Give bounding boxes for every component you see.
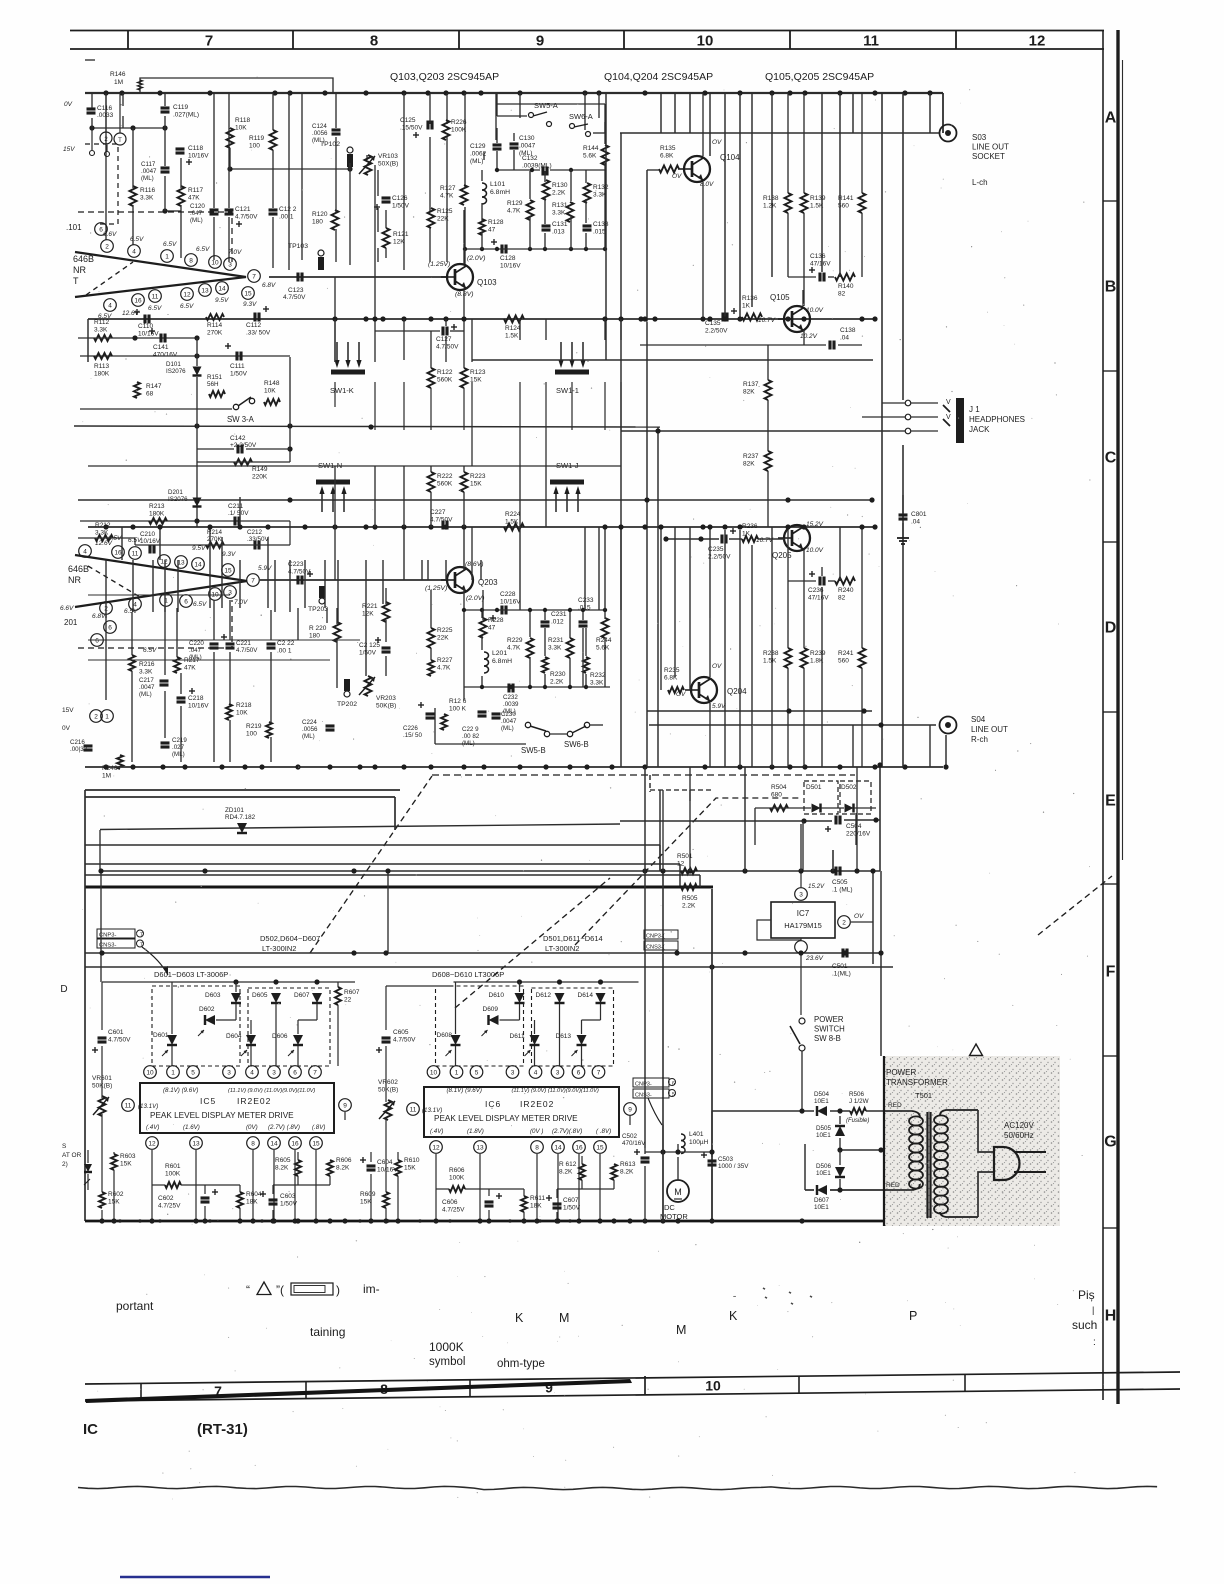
- wire row 687 ch2: [464, 686, 610, 688]
- svg-text:7: 7: [140, 932, 143, 938]
- svg-text:6: 6: [293, 1070, 297, 1077]
- svg-text:8: 8: [189, 258, 193, 265]
- capacitor C226: [426, 712, 435, 715]
- svg-text:IC6: IC6: [485, 1099, 501, 1109]
- svg-text:C118: C118: [188, 145, 203, 152]
- motor wires: [677, 1157, 679, 1180]
- transistor Q105: [784, 306, 810, 332]
- svg-text:50/60Hz: 50/60Hz: [1004, 1131, 1034, 1140]
- svg-text:D604: D604: [226, 1033, 242, 1040]
- IC6 pin 9: [624, 1103, 637, 1116]
- wire heavy 887 bus: [85, 886, 713, 889]
- capacitor C135: [721, 313, 724, 322]
- resistor R604: [237, 1192, 243, 1208]
- svg-text:C112: C112: [246, 322, 261, 329]
- resistor R223: [461, 472, 468, 492]
- svg-text:.101: .101: [66, 223, 82, 232]
- svg-text:C217: C217: [139, 677, 154, 684]
- capacitor C228: [500, 606, 503, 615]
- svg-text:C224: C224: [302, 719, 317, 726]
- IC pin row top l: [144, 1066, 157, 1079]
- svg-text:82K: 82K: [743, 389, 755, 396]
- diagonal pen stroke across bottom ruler: [85, 1379, 632, 1403]
- IC7 pin bottom: [795, 941, 808, 954]
- wire transformer left edge: [883, 1056, 885, 1226]
- svg-text:”(: ”(: [276, 1283, 284, 1297]
- left dashed region boundary ch1: [78, 212, 232, 262]
- svg-text:10/16V: 10/16V: [140, 538, 161, 545]
- svg-text:220K: 220K: [252, 474, 268, 481]
- resistor R218: [226, 704, 232, 720]
- wire row 521: [80, 520, 290, 522]
- wire channel2 verticals: [105, 614, 107, 700]
- svg-text:3: 3: [227, 1070, 231, 1077]
- dashed diode box B l: [248, 988, 330, 1066]
- svg-text:R213: R213: [149, 503, 165, 510]
- svg-text:C138: C138: [840, 327, 856, 334]
- capacitor C126: [382, 196, 391, 199]
- svg-text:4: 4: [108, 303, 112, 310]
- bottom border ruler lines: [85, 1372, 1180, 1384]
- svg-text:P: P: [909, 1309, 917, 1323]
- capacitor C221: [226, 642, 235, 645]
- wire 967 long bus: [85, 966, 893, 968]
- svg-text:C218: C218: [188, 695, 204, 702]
- svg-text:R124: R124: [505, 325, 521, 332]
- resistor R225: [428, 628, 435, 648]
- diode D606 low l: [293, 1035, 303, 1045]
- svg-text:1: 1: [105, 714, 109, 721]
- svg-text:50K(B): 50K(B): [378, 1087, 398, 1094]
- svg-text:6.8K: 6.8K: [664, 675, 678, 682]
- svg-text:D504: D504: [814, 1091, 830, 1098]
- svg-text:15.2V: 15.2V: [806, 521, 824, 528]
- resistor R605: [295, 1160, 301, 1176]
- capacitor C604: [367, 1164, 376, 1167]
- svg-text:SW1-K: SW1-K: [330, 386, 354, 395]
- resistor R228: [480, 618, 487, 638]
- svg-text:3: 3: [228, 262, 232, 269]
- svg-text:5.6K: 5.6K: [596, 645, 610, 652]
- svg-text:R144: R144: [583, 145, 599, 152]
- svg-text:6.5V: 6.5V: [148, 305, 162, 312]
- svg-text:7.0V: 7.0V: [234, 599, 248, 606]
- diode D607: [817, 1185, 827, 1195]
- svg-text:NR: NR: [73, 265, 86, 275]
- ac plug symbol: [994, 1147, 1020, 1180]
- svg-text:8.2K: 8.2K: [336, 1165, 350, 1172]
- wire row 356: [80, 355, 290, 357]
- svg-text:R606: R606: [449, 1167, 465, 1174]
- svg-text:100 K: 100 K: [449, 706, 467, 713]
- wire bottom bus: [85, 1220, 884, 1223]
- capacitor C138: [828, 341, 831, 350]
- svg-text:C502: C502: [622, 1133, 638, 1140]
- svg-text:9: 9: [628, 1107, 632, 1114]
- svg-text:(.8V): (.8V): [312, 1124, 325, 1131]
- resistor R119: [270, 130, 277, 150]
- wire row 462: [197, 461, 290, 463]
- resistor R149: [234, 459, 252, 465]
- svg-text:10.7V: 10.7V: [756, 537, 774, 544]
- svg-text:7: 7: [251, 578, 255, 585]
- capacitor C504: [834, 816, 837, 825]
- top ruler tick marks: [127, 31, 129, 50]
- resistor R601: [165, 1182, 181, 1188]
- ch2 row 500 long wire: [78, 499, 872, 501]
- svg-text:LINE OUT: LINE OUT: [972, 143, 1009, 152]
- svg-text:DC: DC: [664, 1203, 675, 1212]
- headphone jack J1: [956, 398, 964, 443]
- resistor R229: [527, 638, 534, 658]
- svg-text:100: 100: [246, 731, 257, 738]
- vertical 663 from S04 row: [662, 790, 664, 871]
- channel1 long verticals: [605, 93, 607, 360]
- svg-text:10/16V: 10/16V: [500, 599, 521, 606]
- svg-text:1M: 1M: [114, 79, 123, 86]
- vertical x880 E row: [879, 765, 881, 871]
- svg-text:R123: R123: [470, 369, 486, 376]
- capacitor C601: [98, 1036, 107, 1039]
- svg-text:50X(B): 50X(B): [378, 161, 398, 168]
- channel1 sw row verticals: [334, 382, 336, 407]
- svg-text:(11.1V) (9.0V) (11.0V)(9.0V)(1: (11.1V) (9.0V) (11.0V)(9.0V)(11.0V): [228, 1088, 315, 1094]
- socket S04: [940, 717, 957, 734]
- IC pin row top r: [427, 1066, 440, 1079]
- svg-text:10E1: 10E1: [816, 1132, 831, 1139]
- ac plug prongs: [1014, 1151, 1046, 1153]
- transformer primary coil: [912, 1111, 920, 1117]
- svg-text:22K: 22K: [437, 216, 449, 223]
- capacitor C606: [485, 1200, 494, 1203]
- svg-text:6: 6: [108, 625, 112, 632]
- svg-text:JACK: JACK: [969, 425, 990, 434]
- svg-text:3: 3: [799, 892, 803, 899]
- capacitor C607: [553, 1202, 562, 1205]
- svg-text:.0056: .0056: [302, 726, 318, 733]
- svg-text:R610: R610: [404, 1157, 420, 1164]
- svg-text:C606: C606: [442, 1199, 458, 1206]
- svg-text:D502: D502: [841, 784, 857, 791]
- svg-text:(0V): (0V): [246, 1124, 258, 1131]
- dots misc buses: [118, 1219, 122, 1223]
- svg-text:D602: D602: [199, 1006, 215, 1013]
- svg-text:LT-300IN2: LT-300IN2: [262, 944, 296, 953]
- svg-text:R151: R151: [207, 374, 223, 381]
- svg-text:C232: C232: [503, 694, 518, 701]
- svg-text:1/50V: 1/50V: [563, 1205, 581, 1212]
- wire row 538: [78, 537, 135, 539]
- svg-text:VR203: VR203: [376, 695, 396, 702]
- svg-text:16: 16: [291, 1141, 299, 1148]
- resistor R611: [521, 1196, 527, 1212]
- svg-text:3: 3: [556, 1070, 560, 1077]
- svg-text:C132: C132: [522, 155, 538, 162]
- svg-text:15: 15: [312, 1141, 320, 1148]
- svg-text:9: 9: [343, 1103, 347, 1110]
- svg-text:C2 22: C2 22: [277, 640, 295, 647]
- power transformer stipple background: [884, 1056, 1060, 1226]
- wire row 170 channel1: [230, 168, 350, 170]
- svg-text:CNS3-: CNS3-: [635, 1093, 652, 1099]
- resistor R139: [801, 193, 808, 213]
- diode D505: [835, 1126, 845, 1136]
- svg-text:13: 13: [476, 1145, 484, 1152]
- wire SW5B row: [435, 743, 526, 745]
- svg-text:15.2V: 15.2V: [808, 883, 825, 890]
- svg-text:R244: R244: [596, 637, 612, 644]
- diode D613 low r: [577, 1035, 587, 1045]
- svg-text:9.5V: 9.5V: [192, 545, 206, 552]
- svg-text:10/16V: 10/16V: [188, 703, 209, 710]
- channel2 mid verticals: [334, 527, 336, 580]
- svg-text:.0062: .0062: [470, 151, 487, 158]
- svg-text:(1.25V): (1.25V): [425, 585, 447, 592]
- svg-text:D606: D606: [272, 1033, 288, 1040]
- wire R146 lower loop: [92, 127, 165, 129]
- variable resistor VR203: [365, 676, 372, 696]
- connector CNP3 CNS3 right mid: [633, 1078, 669, 1087]
- svg-text:G: G: [1104, 1134, 1116, 1151]
- capacitor C505: [834, 867, 837, 876]
- svg-text:“: “: [246, 1283, 250, 1297]
- switch SW1-J: [550, 480, 584, 485]
- capacitor C216: [84, 744, 93, 747]
- capacitor C220: [210, 642, 219, 645]
- svg-text:.00 1: .00 1: [279, 214, 294, 221]
- wire S03 feed: [620, 132, 940, 134]
- svg-text:100K: 100K: [165, 1171, 181, 1178]
- resistor R135: [659, 166, 679, 173]
- svg-text:OV: OV: [854, 913, 864, 920]
- svg-text:10.7V: 10.7V: [758, 317, 776, 324]
- capacitor C501: [841, 949, 844, 958]
- capacitor C602: [201, 1196, 210, 1199]
- resistor R504: [770, 805, 788, 811]
- svg-text:C120: C120: [190, 203, 205, 210]
- svg-text:D: D: [60, 984, 67, 995]
- wire long 871 bus: [100, 870, 880, 872]
- svg-text:.00 82: .00 82: [462, 733, 480, 740]
- switch SW6-B: [567, 731, 572, 736]
- pin circles 2 T top left: [100, 132, 112, 144]
- resistor R136: [742, 314, 762, 321]
- ground symbol C801: [902, 523, 904, 538]
- svg-text:18K: 18K: [530, 1203, 542, 1210]
- pin circles bottom left: [90, 710, 103, 723]
- svg-text:R12 6: R12 6: [449, 698, 467, 705]
- svg-text:L201: L201: [492, 650, 507, 657]
- svg-text:R221: R221: [362, 603, 378, 610]
- resistor R240: [835, 578, 855, 585]
- svg-text:C126: C126: [392, 195, 408, 202]
- svg-text:IR2E02: IR2E02: [520, 1099, 554, 1109]
- svg-text:C230: C230: [501, 711, 516, 718]
- svg-text:.00|33: .00|33: [70, 746, 88, 753]
- svg-text:R225: R225: [437, 627, 453, 634]
- svg-text:portant: portant: [116, 1299, 154, 1313]
- capacitor C236: [818, 577, 821, 586]
- resistor R121: [383, 228, 390, 248]
- connector CNP3 CNS3 left: [97, 929, 135, 938]
- transformer secondary leads: [978, 1110, 994, 1152]
- svg-text:.15/ 50: .15/ 50: [403, 732, 422, 739]
- svg-text:180K: 180K: [149, 511, 165, 518]
- svg-text:10: 10: [146, 1070, 154, 1077]
- meter drive internal wires: [101, 1046, 103, 1098]
- svg-text:1M: 1M: [102, 773, 111, 780]
- svg-text:ˉ: ˉ: [733, 1295, 736, 1306]
- svg-text:5: 5: [191, 1070, 195, 1077]
- resistor R232: [583, 657, 589, 673]
- svg-text:6.5V: 6.5V: [193, 601, 207, 608]
- resistor R222: [428, 472, 435, 492]
- variable resistor VR103: [365, 155, 372, 175]
- capacitor C229: [478, 710, 487, 713]
- svg-text:taining: taining: [310, 1325, 345, 1339]
- svg-text:C226: C226: [403, 725, 418, 732]
- svg-text:AT OR: AT OR: [62, 1152, 82, 1159]
- diode D602 horizontal l: [205, 1015, 215, 1025]
- svg-text:9.5V: 9.5V: [215, 297, 229, 304]
- diode D611 low r: [530, 1035, 540, 1045]
- svg-text:10K: 10K: [264, 388, 276, 395]
- svg-text:AC120V: AC120V: [1004, 1121, 1034, 1130]
- svg-text:R603: R603: [120, 1153, 136, 1160]
- svg-text:R229: R229: [507, 637, 523, 644]
- svg-text:(ML): (ML): [141, 175, 154, 182]
- svg-text:CNP3-(: CNP3-(: [646, 934, 665, 940]
- svg-text:C123: C123: [288, 287, 304, 294]
- wire D50x row: [755, 807, 811, 809]
- svg-text:14: 14: [218, 286, 226, 293]
- capacitor C110: [143, 315, 146, 324]
- capacitor C225: [382, 646, 391, 649]
- svg-text:symbol: symbol: [429, 1356, 465, 1368]
- wire R146 loop: [140, 78, 333, 93]
- svg-text:R117: R117: [188, 187, 203, 194]
- left edge scan fragments: [85, 59, 95, 61]
- wire ch2 lower horizontals: [88, 639, 360, 641]
- capacitor C129: [493, 143, 502, 146]
- svg-text:C: C: [1105, 450, 1117, 467]
- svg-text:D605: D605: [252, 992, 268, 999]
- channel1 lower verticals: [334, 319, 336, 362]
- resistor R610: [395, 1160, 401, 1176]
- svg-text:.0047: .0047: [141, 168, 157, 175]
- svg-text:47K: 47K: [188, 195, 200, 202]
- svg-text:5.9V: 5.9V: [712, 703, 726, 710]
- svg-text:.047: .047: [190, 210, 203, 217]
- svg-text:R602: R602: [108, 1191, 124, 1198]
- svg-text:(Fusible): (Fusible): [846, 1118, 869, 1124]
- svg-text:9: 9: [545, 1379, 553, 1395]
- op-amp U101 triangle channel1: [75, 252, 246, 297]
- svg-text:R137: R137: [743, 381, 759, 388]
- svg-text:R236: R236: [742, 523, 758, 530]
- svg-text:3.3K: 3.3K: [95, 530, 109, 537]
- svg-text:Q105: Q105: [770, 293, 790, 302]
- svg-text:R139: R139: [810, 195, 826, 202]
- capacitor C116: [87, 107, 96, 110]
- svg-text:4.7/50V: 4.7/50V: [436, 344, 459, 351]
- svg-text:TP103: TP103: [288, 243, 308, 250]
- svg-text:14: 14: [554, 1145, 562, 1152]
- svg-text:D608: D608: [437, 1032, 453, 1039]
- svg-text:C604: C604: [377, 1159, 393, 1166]
- sw column link verticals: [471, 430, 473, 466]
- svg-text:7: 7: [313, 1070, 317, 1077]
- svg-text:C601: C601: [108, 1029, 124, 1036]
- svg-text:(ML): (ML): [470, 158, 483, 165]
- channel2 long verticals: [105, 560, 107, 618]
- svg-text:11: 11: [125, 1103, 132, 1110]
- svg-text:560K: 560K: [437, 481, 453, 488]
- svg-text:D607: D607: [814, 1197, 830, 1204]
- top supply bus wire: [85, 92, 943, 94]
- svg-text:HEADPHONES: HEADPHONES: [969, 415, 1025, 424]
- socket S03: [940, 125, 957, 142]
- svg-text:C117: C117: [141, 161, 156, 168]
- test point TP103: [318, 250, 324, 256]
- junction dots on top bus: [103, 90, 108, 95]
- svg-text:R237: R237: [743, 453, 759, 460]
- channel2 bus527 junction dots: [103, 524, 108, 529]
- svg-text:.0033: .0033: [97, 112, 114, 119]
- svg-text:SW5-A: SW5-A: [534, 101, 558, 110]
- diode D604 l: [271, 993, 281, 1003]
- resistor R505: [681, 884, 697, 890]
- svg-text:(2.7V)(.8V): (2.7V)(.8V): [552, 1128, 582, 1135]
- svg-text:ZD101: ZD101: [225, 807, 244, 814]
- svg-text:6.5V: 6.5V: [108, 535, 122, 542]
- svg-text:7: 7: [252, 274, 256, 281]
- svg-text:POWER: POWER: [886, 1068, 916, 1077]
- svg-text:R146: R146: [110, 71, 126, 78]
- diode array wires r: [455, 982, 457, 1034]
- wire verticals channel1 mid: [430, 331, 432, 368]
- resistor R501: [681, 868, 697, 874]
- svg-text:LT-300IN2: LT-300IN2: [545, 944, 579, 953]
- inductor L201: [484, 652, 489, 659]
- svg-text:(RT-31): (RT-31): [197, 1421, 248, 1438]
- resistor R118: [227, 128, 234, 148]
- svg-text:C131: C131: [552, 221, 568, 228]
- resistor R236: [742, 536, 758, 542]
- IC5 bottom pins: [146, 1137, 159, 1150]
- svg-text:SOCKET: SOCKET: [972, 152, 1005, 161]
- IC5 pin 11: [122, 1099, 135, 1112]
- svg-text:15: 15: [244, 291, 252, 298]
- svg-text:R135: R135: [660, 145, 676, 152]
- svg-text:B: B: [1105, 279, 1117, 296]
- dashed long horizontal E row: [432, 774, 855, 776]
- capacitor C127: [441, 327, 444, 336]
- svg-text:Q204: Q204: [727, 687, 747, 696]
- svg-text:M: M: [559, 1311, 569, 1325]
- svg-text:11: 11: [410, 1107, 417, 1114]
- test point TP203: [319, 598, 325, 604]
- svg-text:15V: 15V: [63, 146, 75, 153]
- svg-text:A: A: [1105, 110, 1117, 127]
- svg-text:1.5K: 1.5K: [505, 333, 519, 340]
- svg-text:R232: R232: [590, 672, 606, 679]
- svg-text:14: 14: [270, 1141, 278, 1148]
- diode D501: [812, 804, 821, 813]
- svg-text:OV: OV: [712, 663, 722, 670]
- right border outer vertical line: [1116, 30, 1119, 1404]
- svg-text:(2.7V) (.8V): (2.7V) (.8V): [268, 1124, 300, 1131]
